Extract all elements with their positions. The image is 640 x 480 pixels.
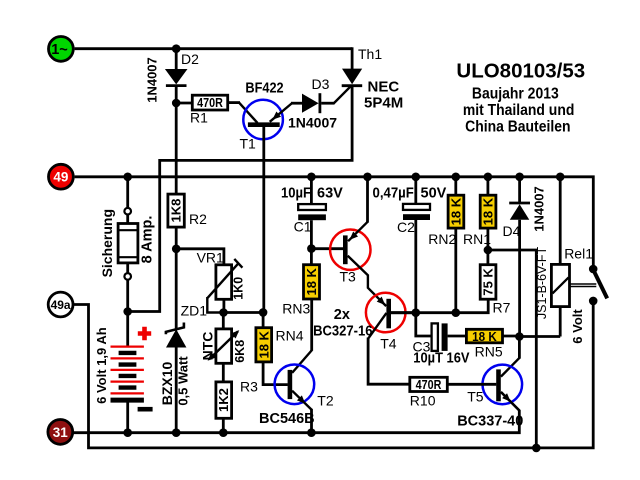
- transistor T4 base bar: [386, 299, 391, 329]
- node E junction rail49/T3: [363, 173, 372, 182]
- diode D2 triangle: [165, 69, 188, 84]
- svg-text:NEC: NEC: [368, 79, 400, 96]
- fuse Sicherung body: [118, 224, 138, 263]
- battery plate black 4: [119, 385, 137, 389]
- transistor T2 base bar: [288, 370, 293, 399]
- svg-text:Baujahr 2013: Baujahr 2013: [472, 86, 559, 103]
- wire relay bottom pin: [559, 307, 562, 337]
- terminal 31: [48, 420, 73, 445]
- svg-text:Sicherung: Sicherung: [99, 209, 115, 277]
- svg-text:1~: 1~: [51, 42, 68, 58]
- svg-text:1K8: 1K8: [169, 199, 184, 223]
- battery bottom plate: [111, 398, 144, 403]
- battery plate red 4: [111, 381, 144, 383]
- svg-text:6K8: 6K8: [233, 340, 247, 363]
- node F junction rail49/C2: [412, 173, 421, 182]
- transistor T5 circle: [483, 365, 523, 405]
- wire Th1 cathode return: [128, 85, 352, 312]
- switch contact bottom: [589, 297, 598, 306]
- wire node S to relay: [519, 335, 560, 338]
- terminal 1~: [49, 37, 74, 62]
- wire D2 anode lead: [175, 49, 178, 70]
- svg-text:6 Volt: 6 Volt: [570, 309, 585, 344]
- svg-text:T5: T5: [467, 389, 484, 405]
- svg-text:China Bauteilen: China Bauteilen: [465, 119, 570, 136]
- node R junction RN1/R7: [484, 246, 493, 255]
- wire fuse lead b: [126, 263, 129, 273]
- wire node O to T3 base: [311, 247, 343, 250]
- wire NTC top lead: [222, 313, 225, 330]
- wire RN2 bottom lead: [454, 228, 457, 313]
- node O junction C1/RN3/T3: [307, 244, 316, 253]
- svg-text:75 K: 75 K: [481, 268, 496, 296]
- wire T4 collector: [391, 311, 417, 314]
- wire C2 top lead: [414, 177, 417, 205]
- svg-text:BF422: BF422: [245, 80, 284, 96]
- svg-text:1K2: 1K2: [216, 388, 231, 412]
- thermistor NTC box: [216, 329, 232, 363]
- wire R7 top lead: [486, 250, 489, 265]
- svg-text:R3: R3: [240, 379, 258, 395]
- relay Rel1 coil diagonal: [553, 277, 569, 293]
- battery plate red 1: [111, 346, 144, 348]
- svg-text:C2: C2: [397, 219, 415, 235]
- svg-text:5P4M: 5P4M: [364, 95, 403, 112]
- wire RN1 bottom lead: [486, 228, 489, 250]
- node Y junction rail31/R3: [219, 428, 228, 437]
- wire T5 collector: [518, 337, 521, 359]
- svg-text:470R: 470R: [416, 378, 442, 392]
- svg-text:10µT 16V: 10µT 16V: [413, 350, 470, 366]
- relay Rel1 coil box: [551, 264, 569, 306]
- svg-text:mit Thailand und: mit Thailand und: [463, 102, 575, 119]
- wire RN3 top lead: [310, 249, 313, 266]
- wire 49a loop: [73, 301, 593, 448]
- svg-text:JS1-B-6V-FT: JS1-B-6V-FT: [535, 247, 549, 320]
- wire node M to node N: [224, 311, 264, 314]
- battery minus sign: [138, 407, 153, 412]
- svg-text:31: 31: [53, 425, 69, 440]
- transistor T5 emitter arrow: [502, 393, 510, 401]
- svg-text:BZX10: BZX10: [159, 362, 175, 406]
- svg-text:R10: R10: [410, 393, 436, 409]
- battery plate black 2: [119, 362, 137, 366]
- wire fuse lead a: [126, 215, 129, 225]
- wire RN3 to T2 collector: [310, 299, 313, 351]
- wire Th1 anode lead: [351, 47, 354, 69]
- svg-text:0,47µF: 0,47µF: [373, 184, 414, 201]
- capacitor C2 plate top: [403, 204, 430, 210]
- node I junction rail49/D4: [515, 173, 524, 182]
- wire R2 to node L: [175, 227, 178, 250]
- transistor T3 emitter arrow: [350, 231, 359, 239]
- node W junction rail31/battery: [123, 428, 132, 437]
- transistor T1 emitter arrow: [272, 111, 281, 119]
- node L junction R2/ZD1/VR1: [172, 245, 181, 254]
- node P junction C2/C3: [412, 308, 421, 317]
- wire relay top pin: [559, 177, 562, 265]
- svg-text:470R: 470R: [197, 96, 223, 110]
- thermistor NTC arrowhead b: [231, 330, 240, 338]
- resistor R10 box: [410, 377, 448, 391]
- node S junction D4/RN5/relay: [515, 332, 524, 341]
- node Z junction rail31/T2e: [307, 428, 316, 437]
- trimmer VR1 wiper return: [207, 297, 221, 313]
- diode D3 triangle: [302, 94, 319, 113]
- capacitor C1 plate top: [298, 204, 326, 210]
- svg-text:D4: D4: [503, 223, 521, 239]
- transistor T4 circle: [366, 293, 406, 333]
- thyristor Th1 triangle: [342, 69, 362, 85]
- svg-text:VR1: VR1: [197, 250, 224, 266]
- node M junction VR1/NTC: [219, 308, 228, 317]
- svg-text:Rel1: Rel1: [564, 246, 593, 262]
- fuse terminal circle bottom: [124, 273, 131, 280]
- wire C3 left lead: [416, 313, 432, 336]
- wire VR1 bottom lead: [222, 299, 225, 313]
- transistor T3 circle: [330, 230, 370, 270]
- trimmer VR1 arrow: [207, 263, 238, 298]
- node C junction rail49/fuse: [123, 173, 132, 182]
- fuse inner line bottom: [118, 256, 138, 258]
- resistor RN4 box: [256, 328, 272, 362]
- wire T5 emitter diagonal: [501, 392, 519, 411]
- transistor T1 base bar: [248, 122, 280, 127]
- wire C3 to RN5: [448, 335, 468, 338]
- thyristor Th1 cathode bar: [342, 84, 363, 87]
- svg-text:T2: T2: [317, 393, 334, 409]
- wire T2 emitter diagonal: [292, 391, 311, 410]
- capacitor C3 plate right: [442, 323, 448, 351]
- resistor R7 box: [480, 265, 496, 300]
- svg-text:18 K: 18 K: [448, 197, 463, 225]
- svg-text:1N4007: 1N4007: [144, 57, 159, 103]
- node J junction rail49/relay: [556, 173, 565, 182]
- diode D4 cathode bar: [509, 202, 530, 205]
- wire RN1 top lead: [486, 177, 489, 196]
- wire C1 top lead: [310, 177, 313, 205]
- capacitor C1 plate bottom: [298, 214, 326, 220]
- trimmer VR1 arrow tbar: [234, 259, 242, 268]
- battery plate red 5: [111, 392, 144, 394]
- svg-text:18 K: 18 K: [472, 329, 497, 344]
- svg-text:18 K: 18 K: [256, 330, 271, 358]
- wire rail 31: [74, 410, 520, 433]
- transistor T1 emitter diagonal: [270, 103, 293, 122]
- wire RN2 top lead: [454, 177, 457, 196]
- wire node L to VR1: [176, 249, 224, 266]
- wire mid rail: [391, 300, 488, 313]
- zener ZD1 cathode bar: [166, 323, 184, 335]
- wire 1~ rail: [75, 47, 353, 50]
- fuse inner line top: [118, 229, 138, 231]
- wire RN4 top lead: [262, 312, 265, 328]
- svg-text:R1: R1: [190, 110, 208, 126]
- battery plate red 3: [111, 369, 144, 371]
- thermistor NTC arrow: [209, 331, 238, 359]
- wire D2 cathode to R2: [175, 85, 178, 195]
- svg-text:D3: D3: [312, 76, 330, 92]
- node N junction T1e/RN4: [259, 308, 268, 317]
- diode D4 triangle: [510, 204, 530, 220]
- node Q junction RN2: [452, 308, 461, 317]
- svg-text:BC337-40: BC337-40: [457, 414, 523, 430]
- svg-text:10µF: 10µF: [281, 185, 311, 201]
- svg-text:Th1: Th1: [358, 46, 382, 62]
- wire RN4 to T2 base: [263, 362, 288, 385]
- wire C1 bottom lead: [310, 220, 313, 249]
- switch contact top: [589, 265, 598, 274]
- svg-text:R7: R7: [493, 300, 511, 316]
- resistor RN1 box: [480, 195, 496, 228]
- battery plus sign: [138, 327, 151, 340]
- wire node R to 49a drop: [488, 250, 536, 448]
- battery plate black 3: [119, 374, 137, 378]
- node H junction rail49/RN1: [484, 173, 493, 182]
- resistor RN2 box: [448, 195, 464, 228]
- wire C2 bottom lead: [414, 220, 417, 313]
- svg-text:T1: T1: [240, 136, 257, 152]
- svg-text:RN3: RN3: [282, 301, 310, 317]
- wire T3 collector to T4 emitter: [348, 256, 387, 306]
- wire R3 to rail 31: [222, 418, 225, 432]
- svg-text:NTC: NTC: [200, 332, 216, 361]
- svg-text:2x: 2x: [334, 307, 350, 323]
- wire ZD1 cathode lead: [175, 249, 178, 330]
- svg-text:T3: T3: [340, 269, 357, 285]
- capacitor C2 plate bottom: [403, 214, 430, 220]
- wire rail 49: [75, 177, 594, 269]
- svg-text:RN5: RN5: [475, 344, 503, 360]
- terminal 49a: [48, 292, 73, 317]
- transistor T4 emitter arrow: [377, 297, 385, 305]
- wire fuse top lead: [126, 177, 129, 208]
- wire battery to rail 31: [126, 400, 129, 433]
- node T junction 49a/RN1: [532, 444, 541, 453]
- svg-text:RN2: RN2: [428, 231, 456, 247]
- svg-text:R2: R2: [189, 211, 207, 227]
- node D junction rail49/C1: [307, 173, 316, 182]
- wire NTC to R3: [222, 363, 225, 382]
- transistor T1 circle: [243, 100, 283, 140]
- wire fuse to battery: [126, 280, 129, 346]
- transistor T3 base bar: [343, 235, 348, 264]
- resistor R3 box: [216, 382, 232, 418]
- svg-text:BC546B: BC546B: [259, 411, 315, 427]
- wire D4 to node S: [518, 220, 521, 337]
- svg-text:D2: D2: [181, 51, 199, 67]
- node K junction Th1 return: [123, 307, 132, 316]
- diode D2 cathode bar: [166, 84, 187, 87]
- transistor T2 emitter arrow: [297, 395, 305, 403]
- zener ZD1 triangle: [166, 329, 186, 347]
- svg-text:ZD1: ZD1: [181, 303, 208, 319]
- svg-text:RN1: RN1: [463, 231, 491, 247]
- svg-text:49a: 49a: [51, 298, 71, 312]
- wire T4 base: [368, 313, 386, 339]
- wire R10 to T5 base: [447, 383, 496, 386]
- svg-text:1N4007: 1N4007: [288, 115, 337, 131]
- svg-text:RN4: RN4: [276, 328, 304, 344]
- svg-text:C1: C1: [294, 219, 312, 235]
- relay actuator line a: [570, 283, 597, 285]
- svg-text:BC327-16: BC327-16: [313, 323, 373, 339]
- resistor R1 box: [192, 95, 227, 110]
- battery plate red 2: [111, 357, 144, 359]
- wire node B to R1: [176, 102, 193, 105]
- svg-text:1K0: 1K0: [232, 277, 246, 300]
- wire D4 anode lead: [518, 177, 521, 202]
- terminal 49: [49, 164, 74, 189]
- fuse terminal circle top: [124, 208, 131, 215]
- node G junction rail49/RN2: [452, 173, 461, 182]
- transistor T1 base lead: [262, 127, 265, 313]
- thermistor NTC arrowhead a: [208, 352, 217, 360]
- wire R1 to T1 collector: [228, 101, 240, 104]
- svg-text:1N4007: 1N4007: [532, 186, 547, 232]
- switch blade: [594, 270, 608, 298]
- wire D3 to Th1 gate: [321, 102, 334, 105]
- resistor R2 box: [168, 194, 184, 227]
- wire ZD1 anode to rail 31: [175, 347, 178, 433]
- capacitor C3 plate left: [432, 323, 438, 351]
- resistor RN3 box: [304, 265, 320, 299]
- svg-text:49: 49: [53, 170, 68, 185]
- wire T3 emitter feed: [366, 177, 369, 223]
- svg-text:ULO80103/53: ULO80103/53: [456, 60, 585, 83]
- node B junction R1 tap: [172, 99, 181, 108]
- relay actuator line b: [570, 286, 597, 288]
- battery plate black 1: [119, 351, 137, 355]
- svg-text:18 K: 18 K: [481, 197, 496, 225]
- node X junction rail31/ZD1: [172, 428, 181, 437]
- node A junction D2 top: [172, 44, 181, 53]
- resistor RN5 box: [466, 329, 502, 343]
- svg-text:50V: 50V: [421, 186, 447, 202]
- svg-text:63V: 63V: [317, 186, 343, 202]
- diode D3 cathode bar: [318, 93, 321, 113]
- svg-text:0,5 Watt: 0,5 Watt: [176, 356, 191, 406]
- svg-text:T4: T4: [380, 336, 397, 352]
- svg-text:8 Amp.: 8 Amp.: [139, 216, 155, 264]
- svg-text:18 K: 18 K: [304, 267, 319, 295]
- trimmer VR1 box: [216, 265, 232, 300]
- wire RN5 to node S: [503, 335, 520, 338]
- transistor T2 circle: [275, 365, 315, 405]
- svg-text:6 Volt 1,9 Ah: 6 Volt 1,9 Ah: [94, 327, 109, 404]
- transistor T5 base bar: [496, 369, 501, 401]
